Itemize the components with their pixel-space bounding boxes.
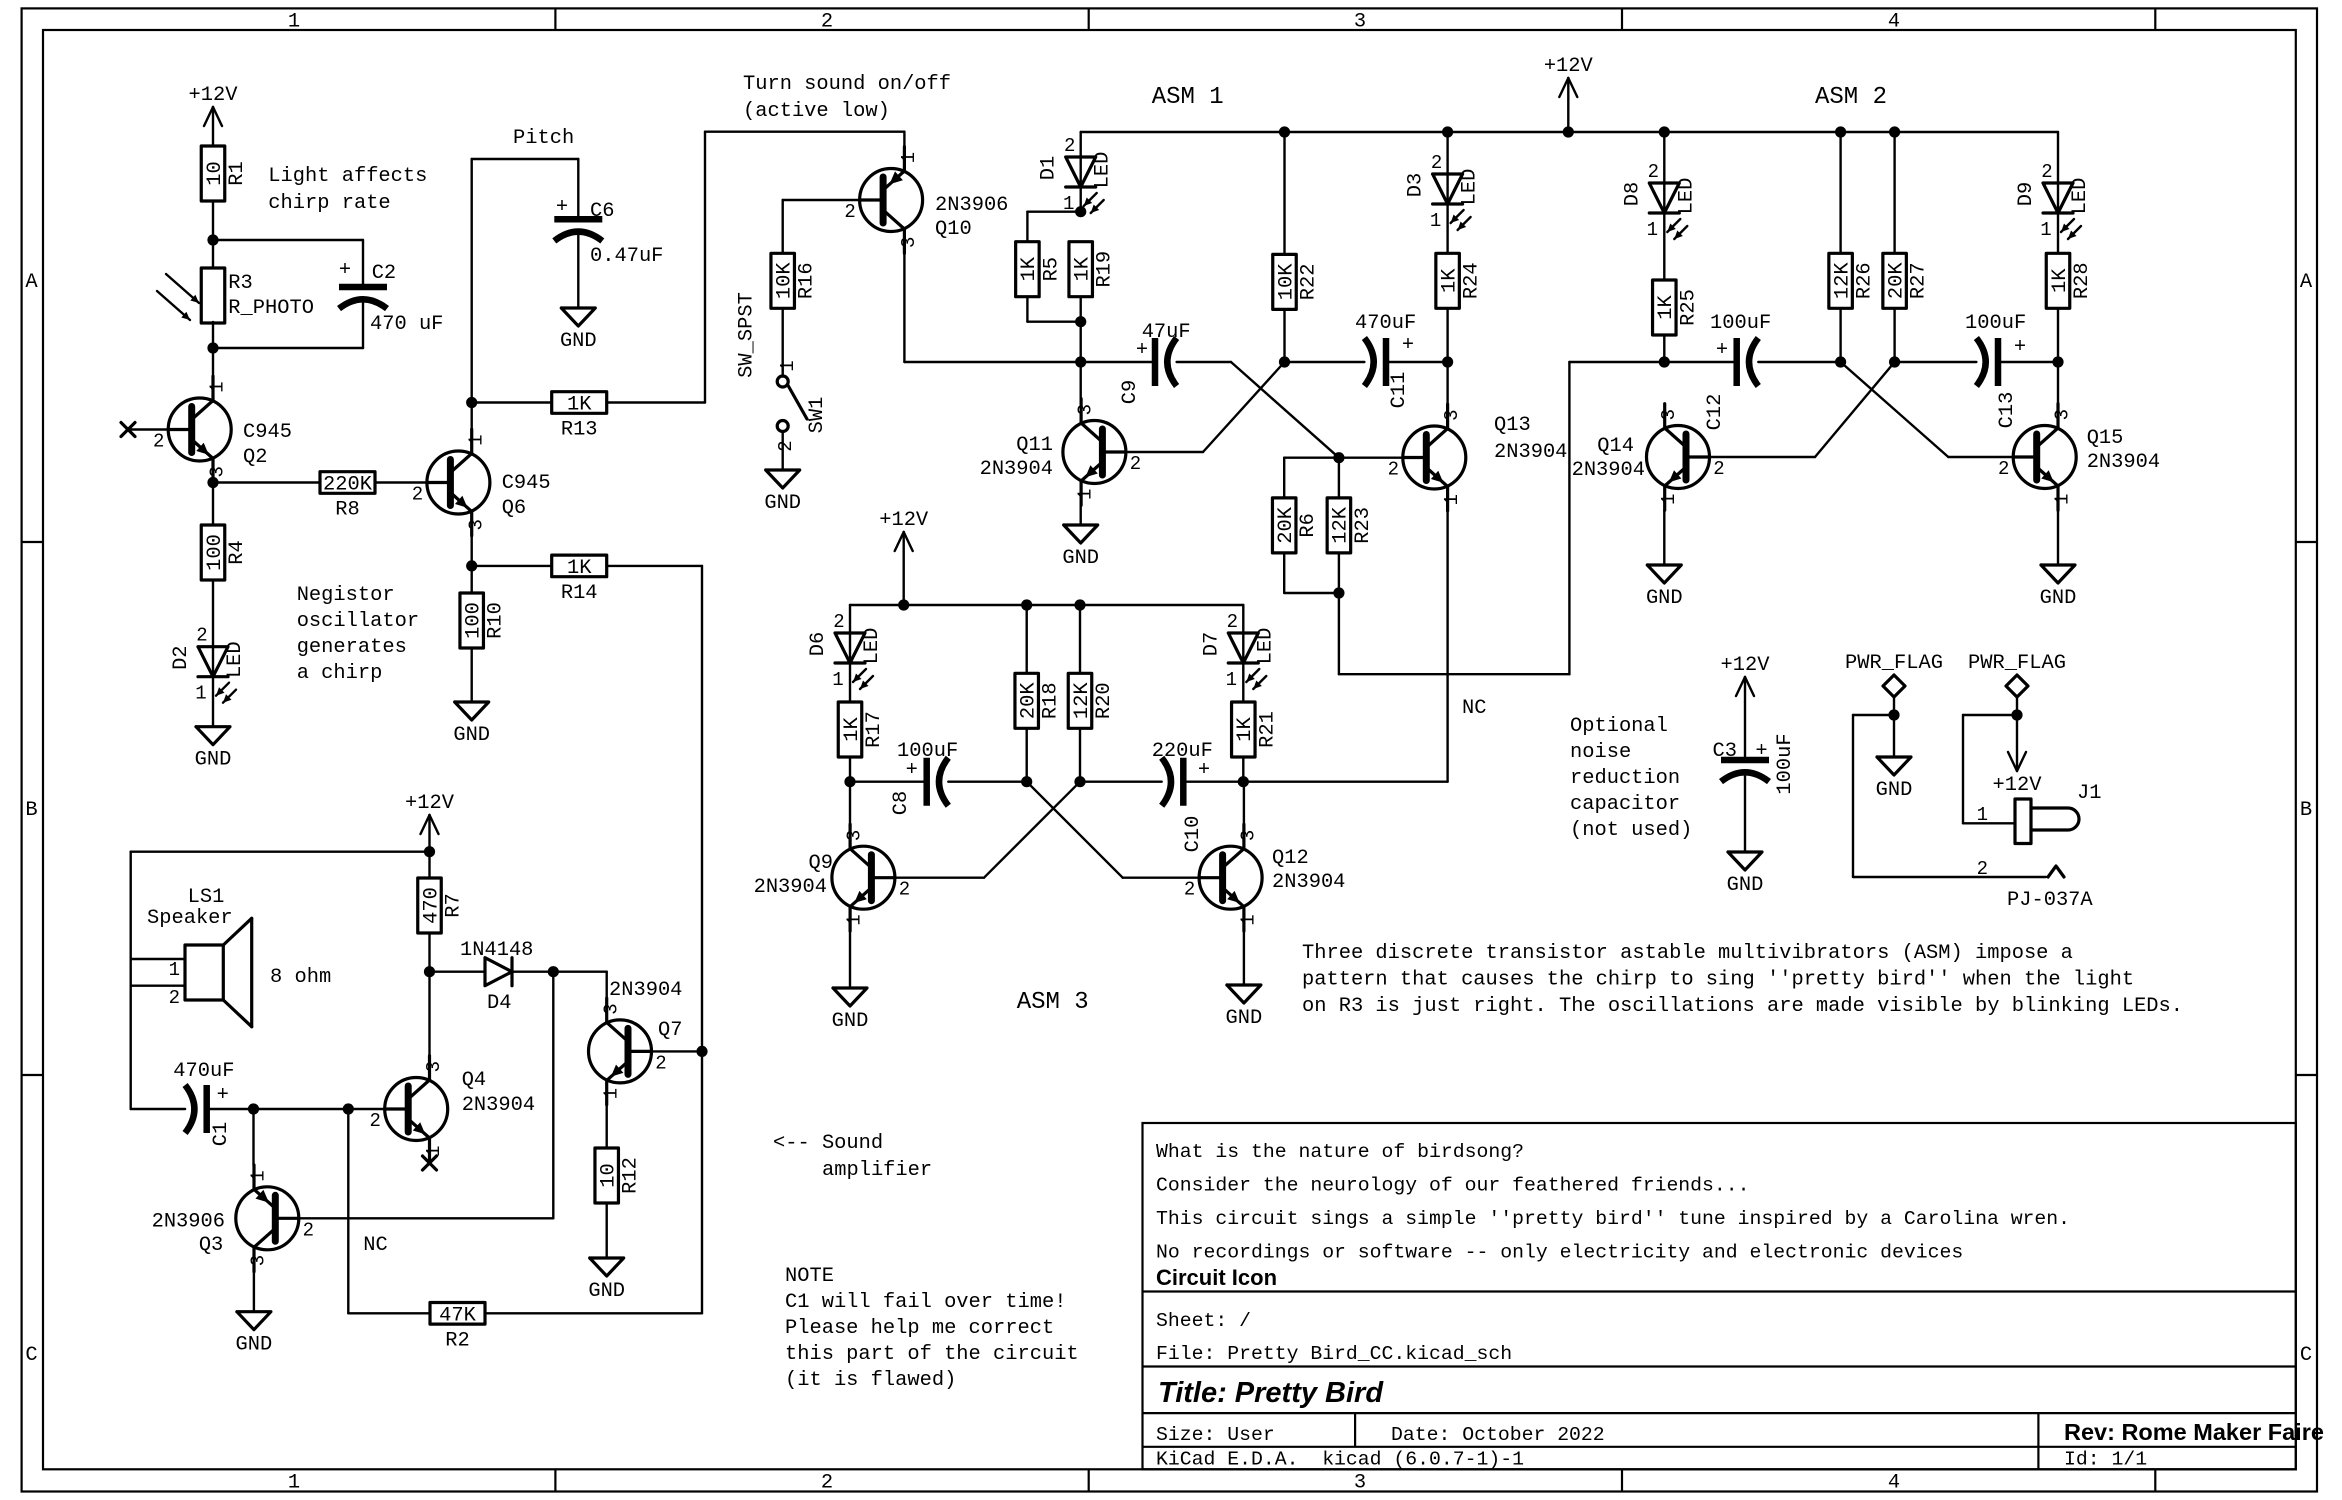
svg-text:1: 1	[1430, 210, 1441, 232]
svg-text:this part of the circuit: this part of the circuit	[785, 1343, 1079, 1366]
svg-text:NC: NC	[363, 1234, 387, 1257]
junction Q7 base / R14 / R2	[696, 1046, 707, 1057]
svg-text:R21: R21	[1256, 711, 1279, 748]
wire rail corner to D9	[2057, 132, 2059, 182]
svg-text:10K: 10K	[774, 262, 797, 299]
resistor R6	[1272, 498, 1296, 553]
svg-text:R13: R13	[561, 419, 598, 442]
svg-text:on R3 is just right. The oscil: on R3 is just right. The oscillations ar…	[1302, 995, 2183, 1018]
wire C3 to GND	[1744, 776, 1746, 852]
svg-text:GND: GND	[832, 1010, 869, 1033]
svg-text:2: 2	[153, 431, 164, 453]
svg-text:NOTE: NOTE	[785, 1265, 834, 1288]
wire Q7 base to junction	[652, 1050, 703, 1052]
svg-text:+: +	[1198, 759, 1210, 782]
title block	[1143, 1123, 2296, 1469]
wire R10 to GND	[471, 648, 473, 702]
junction R25 / C12 / Q14 collector	[1659, 356, 1670, 367]
svg-text:2: 2	[821, 11, 833, 34]
junction +12V R7	[424, 846, 435, 857]
svg-text:C945: C945	[502, 472, 551, 495]
svg-text:R16: R16	[796, 262, 819, 299]
wire R18 to junction	[1025, 728, 1027, 781]
wire Q15 collector	[2057, 362, 2059, 404]
junction C13 right / R28 / Q15	[2052, 356, 2063, 367]
svg-text:LED: LED	[224, 641, 247, 678]
svg-text:GND: GND	[764, 492, 801, 515]
svg-text:GND: GND	[195, 749, 232, 772]
wire Q15 emitter to GND	[2057, 510, 2059, 565]
svg-text:C10: C10	[1182, 816, 1205, 853]
svg-text:C13: C13	[1996, 392, 2019, 429]
wire Q6 emitter	[471, 536, 473, 593]
capacitor C13	[1995, 338, 2002, 386]
svg-text:LS1: LS1	[188, 886, 225, 909]
svg-text:No recordings or software -- o: No recordings or software -- only electr…	[1156, 1242, 1963, 1264]
junction R22 bottom / C11 left	[1279, 356, 1290, 367]
junction R27 bottom / C13 left	[1889, 356, 1900, 367]
wire rail to D1	[1079, 132, 1081, 156]
svg-text:100: 100	[463, 602, 486, 639]
wire R12 to GND	[606, 1203, 608, 1258]
wire R27 to junction	[1893, 308, 1895, 362]
transistor Q13	[1403, 426, 1466, 489]
junction Pitch node	[466, 397, 477, 408]
svg-text:1: 1	[248, 1170, 270, 1181]
wire Q6 collector to Pitch node	[471, 403, 473, 430]
ground below PWR_FLAG1	[1877, 757, 1911, 775]
wire PWR_FLAG2 to J1 pin1	[1963, 714, 2017, 716]
ground below D2	[196, 727, 230, 745]
svg-text:C3: C3	[1713, 740, 1737, 763]
resistor R28	[2046, 253, 2070, 308]
svg-text:R1: R1	[226, 161, 249, 185]
transistor Q11	[1063, 421, 1126, 484]
power +12V amplifier	[428, 815, 430, 852]
svg-text:LED: LED	[1675, 178, 1698, 215]
junction rail D3	[1442, 126, 1453, 137]
wire rail to D7	[1242, 605, 1244, 632]
capacitor C6	[554, 216, 602, 223]
svg-text:+: +	[1136, 339, 1148, 362]
svg-text:2N3904: 2N3904	[1572, 459, 1645, 482]
wire Pitch to R13	[472, 401, 552, 403]
svg-text:+12V: +12V	[1993, 774, 2043, 797]
svg-text:Consider the neurology of our: Consider the neurology of our feathered …	[1156, 1175, 1750, 1197]
svg-text:R7: R7	[443, 893, 466, 917]
svg-text:100: 100	[204, 534, 227, 571]
svg-text:47K: 47K	[439, 1304, 476, 1327]
svg-text:2N3904: 2N3904	[2087, 451, 2160, 474]
wire PWR_FLAG1 to GND	[1893, 715, 1895, 757]
svg-text:R27: R27	[1908, 262, 1931, 299]
svg-text:2: 2	[655, 1052, 666, 1074]
svg-text:GND: GND	[1062, 547, 1099, 570]
svg-text:R12: R12	[620, 1157, 643, 1194]
junction rail +12V	[1563, 126, 1574, 137]
svg-text:2N3904: 2N3904	[1494, 441, 1567, 464]
svg-text:2N3906: 2N3906	[935, 194, 1008, 217]
junction Q2 emitter / R8	[207, 477, 218, 488]
junction R18 bottom / C8 right	[1021, 776, 1032, 787]
wire bias feed to ASM2	[1338, 593, 1340, 674]
svg-text:+12V: +12V	[1544, 55, 1594, 78]
wire R17 to junction	[849, 757, 851, 782]
svg-text:1: 1	[832, 669, 843, 691]
svg-text:GND: GND	[236, 1334, 273, 1357]
svg-text:Q2: Q2	[243, 446, 267, 469]
svg-text:1: 1	[207, 381, 229, 392]
wire rail to D6	[849, 605, 851, 632]
svg-text:3: 3	[844, 830, 866, 841]
svg-text:B: B	[25, 799, 37, 822]
wire R7 to D4 node	[428, 933, 430, 972]
wire R14 left	[472, 565, 552, 567]
svg-text:C1 will fail over time!: C1 will fail over time!	[785, 1291, 1066, 1314]
svg-text:1K: 1K	[567, 394, 592, 417]
svg-text:C945: C945	[243, 421, 292, 444]
wire to R8	[213, 481, 320, 483]
svg-text:noise: noise	[1570, 741, 1631, 764]
wire diagonal to Q15 base	[1841, 362, 1949, 457]
speaker LS1	[185, 945, 223, 1000]
svg-text:1K: 1K	[1655, 295, 1678, 320]
junction Q4 base node	[343, 1103, 354, 1114]
wire Q3 base	[299, 1217, 554, 1219]
power +12V ASM1	[1567, 78, 1569, 132]
svg-text:capacitor: capacitor	[1570, 793, 1680, 816]
svg-text:reduction: reduction	[1570, 767, 1680, 790]
svg-text:Q6: Q6	[502, 497, 526, 520]
junction R7 D4 Q4	[424, 966, 435, 977]
svg-text:Q14: Q14	[1597, 435, 1634, 458]
svg-text:R14: R14	[561, 582, 598, 605]
svg-text:1: 1	[2052, 494, 2074, 505]
transistor Q3	[236, 1187, 299, 1250]
wire Q3 collector riser	[252, 1109, 254, 1165]
resistor R25	[1653, 280, 1677, 335]
svg-text:Id: 1/1: Id: 1/1	[2064, 1449, 2147, 1471]
svg-text:(active low): (active low)	[743, 100, 890, 123]
junction Q11 collector / C9	[1075, 356, 1086, 367]
svg-text:Please help me correct: Please help me correct	[785, 1317, 1054, 1340]
svg-text:100uF: 100uF	[1965, 312, 2026, 335]
wire R7 top	[428, 852, 430, 878]
wire diagonal C9 to Q13 base	[1231, 362, 1339, 458]
svg-text:10K: 10K	[1275, 263, 1298, 300]
power +12V top-left	[212, 107, 214, 146]
wire rail to D3	[1446, 132, 1448, 173]
svg-text:2: 2	[1130, 453, 1141, 475]
wire +12V rail left	[131, 851, 430, 853]
wire corner down to Q7 collector	[606, 972, 608, 998]
wire R14 to Q7 base riser	[607, 565, 702, 567]
svg-text:oscillator: oscillator	[297, 610, 419, 633]
resistor R12	[595, 1148, 619, 1203]
resistor R4	[201, 525, 225, 580]
ground below R10	[455, 702, 489, 720]
rail ASM3	[850, 604, 1243, 606]
svg-text:R19: R19	[1094, 251, 1117, 288]
wire R1 to R3	[212, 201, 214, 268]
junction D1 bottom	[1075, 206, 1086, 217]
junction rail R22	[1279, 126, 1290, 137]
svg-text:LED: LED	[1254, 628, 1277, 665]
wire C13 to R28 node	[1998, 361, 2058, 363]
capacitor C12	[1733, 338, 1740, 386]
junction C11 right / R24 / Q13	[1442, 356, 1453, 367]
resistor R1	[201, 146, 225, 201]
svg-text:1: 1	[169, 959, 180, 981]
capacitor C1	[203, 1085, 210, 1133]
wire R20 to junction	[1079, 728, 1081, 781]
svg-text:R26: R26	[1854, 262, 1877, 299]
junction C1 / Q3	[248, 1103, 259, 1114]
junction Q6 emitter / R14	[466, 560, 477, 571]
svg-text:1K: 1K	[2049, 268, 2072, 293]
svg-text:+: +	[906, 759, 918, 782]
ground below R12	[590, 1258, 624, 1276]
svg-text:Speaker: Speaker	[147, 907, 233, 930]
wire Q10 emitter down to C9 row	[903, 253, 905, 362]
junction PWR_FLAG2	[2011, 709, 2022, 720]
svg-text:2N3904: 2N3904	[980, 458, 1053, 481]
svg-text:20K: 20K	[1885, 262, 1908, 299]
svg-text:3: 3	[423, 1061, 445, 1072]
resistor R10	[460, 593, 484, 648]
svg-text:3: 3	[465, 519, 487, 530]
wire D1 to R5 R19	[1079, 187, 1081, 212]
svg-text:4: 4	[1888, 11, 1900, 34]
svg-text:ASM 2: ASM 2	[1815, 84, 1887, 111]
wire Q11 emitter to GND	[1079, 505, 1081, 525]
power +12V down at J1	[2016, 715, 2018, 771]
junction R1-R3-C2 top	[207, 234, 218, 245]
svg-text:2: 2	[369, 1110, 380, 1132]
svg-text:2: 2	[1648, 161, 1659, 183]
svg-text:2: 2	[1977, 858, 1988, 880]
svg-text:470: 470	[420, 887, 443, 924]
svg-text:C: C	[2300, 1344, 2312, 1367]
svg-text:R28: R28	[2071, 262, 2094, 299]
svg-text:D1: D1	[1038, 156, 1061, 180]
wire speaker pin1	[131, 958, 185, 960]
svg-text:J1: J1	[2077, 782, 2101, 805]
svg-text:R24: R24	[1461, 262, 1484, 299]
wire rail to R27	[1893, 132, 1895, 253]
wire base node to R23	[1338, 458, 1340, 498]
junction ASM3 R20	[1074, 599, 1085, 610]
svg-text:3: 3	[2052, 409, 2074, 420]
wire riser to Q3 base	[552, 972, 554, 1219]
svg-text:(it is flawed): (it is flawed)	[785, 1369, 956, 1392]
svg-text:2: 2	[833, 611, 844, 633]
LED D3	[1433, 174, 1463, 204]
ground below Q11	[1064, 525, 1098, 543]
svg-text:Turn sound on/off: Turn sound on/off	[743, 73, 951, 96]
ground below C6	[561, 308, 595, 326]
svg-text:1N4148: 1N4148	[460, 939, 533, 962]
svg-text:D3: D3	[1405, 173, 1428, 197]
svg-text:ASM 3: ASM 3	[1017, 989, 1089, 1016]
wire D8 to R25	[1663, 213, 1665, 280]
junction R5-R19	[1075, 316, 1086, 327]
wire left riser	[129, 852, 131, 1109]
svg-text:1: 1	[288, 11, 300, 34]
svg-text:2: 2	[844, 201, 855, 223]
resistor R23	[1327, 498, 1351, 553]
resistor R14	[552, 555, 607, 577]
svg-text:R5: R5	[1040, 257, 1063, 281]
LED D6	[835, 633, 865, 663]
svg-text:generates: generates	[297, 636, 407, 659]
svg-text:+: +	[1716, 339, 1728, 362]
svg-text:Sheet: /: Sheet: /	[1156, 1310, 1251, 1332]
svg-text:R18: R18	[1040, 682, 1063, 719]
svg-text:3: 3	[1354, 1472, 1366, 1495]
ground below C3	[1728, 852, 1762, 870]
svg-text:D9: D9	[2015, 182, 2038, 206]
resistor R8	[320, 472, 375, 494]
svg-text:1: 1	[777, 360, 799, 371]
svg-text:R8: R8	[335, 499, 359, 522]
svg-text:12K: 12K	[1330, 506, 1353, 543]
junction C10 right / R21 / Q12	[1238, 776, 1249, 787]
svg-text:GND: GND	[1876, 779, 1913, 802]
svg-text:GND: GND	[1646, 587, 1683, 610]
svg-text:pattern that causes the chirp: pattern that causes the chirp to sing ''…	[1302, 969, 2134, 992]
wire Q13 emitter to ASM3 D7 node	[1446, 511, 1448, 782]
svg-text:470 uF: 470 uF	[370, 313, 443, 336]
transistor Q15	[2013, 426, 2076, 489]
svg-text:GND: GND	[2040, 587, 2077, 610]
svg-text:Three discrete transistor asta: Three discrete transistor astable multiv…	[1302, 942, 2073, 965]
transistor Q4	[385, 1078, 448, 1141]
power +12V C3	[1744, 677, 1746, 760]
svg-text:KiCad E.D.A. kicad (6.0.7-1)-: KiCad E.D.A. kicad (6.0.7-1)-1	[1156, 1449, 1524, 1471]
svg-text:2: 2	[303, 1219, 314, 1241]
wire rail to R22	[1283, 132, 1285, 254]
resistor R22	[1273, 254, 1297, 309]
power +12V ASM3	[903, 532, 905, 605]
junction R3-C2 bottom	[207, 342, 218, 353]
wire D4 to Q7 collector corner	[512, 971, 607, 973]
svg-text:C2: C2	[372, 262, 396, 285]
svg-text:1: 1	[1074, 489, 1096, 500]
svg-text:R20: R20	[1093, 682, 1116, 719]
ground below Q15	[2041, 565, 2075, 583]
svg-text:1: 1	[1658, 494, 1680, 505]
wire Q10 base to R16	[783, 199, 860, 201]
svg-text:+: +	[217, 1084, 229, 1107]
LED D1	[1066, 157, 1096, 187]
resistor R16	[771, 253, 795, 308]
svg-text:Q13: Q13	[1494, 414, 1531, 437]
svg-text:1K: 1K	[1438, 268, 1461, 293]
connector J1 PJ-037A	[2015, 799, 2031, 844]
svg-text:A: A	[25, 271, 38, 294]
resistor R7	[418, 878, 442, 933]
wire R4 to D2	[212, 580, 214, 647]
wire Q12 emitter to GND	[1243, 931, 1245, 985]
svg-text:+: +	[2014, 336, 2026, 359]
capacitor C2	[339, 284, 387, 291]
svg-text:2N3904: 2N3904	[1272, 871, 1345, 894]
resistor R26	[1829, 253, 1853, 308]
wire R26 to junction	[1839, 308, 1841, 362]
wire R22 to junction	[1283, 309, 1285, 362]
junction rail D8	[1659, 126, 1670, 137]
wire R28 to junction	[2057, 308, 2059, 362]
wire C8 to R18 junction	[948, 781, 1026, 783]
svg-text:2: 2	[1388, 459, 1399, 481]
svg-text:2: 2	[1713, 458, 1724, 480]
wire Q12 collector	[1243, 782, 1245, 825]
svg-text:1: 1	[1226, 669, 1237, 691]
resistor R2	[430, 1303, 485, 1325]
wire rail to D8	[1663, 132, 1665, 182]
svg-text:R10: R10	[485, 602, 508, 639]
svg-text:3: 3	[1354, 11, 1366, 34]
wire Q4 collector	[428, 972, 430, 1056]
switch SW1 SW_SPST	[777, 376, 788, 387]
svg-text:R6: R6	[1297, 513, 1320, 537]
junction ASM3 +12V	[898, 599, 909, 610]
svg-text:Q9: Q9	[809, 852, 833, 875]
junction R26 bottom / C12 right	[1835, 356, 1846, 367]
wire C12 to R26 junction	[1758, 361, 1840, 363]
resistor R21	[1232, 702, 1256, 757]
transistor Q9	[832, 846, 895, 909]
svg-text:10: 10	[204, 161, 227, 185]
svg-text:10: 10	[598, 1163, 621, 1187]
resistor R13	[552, 392, 607, 414]
wire D3 to R24	[1446, 204, 1448, 253]
resistor R5	[1016, 242, 1040, 297]
svg-text:0.47uF: 0.47uF	[590, 245, 663, 268]
svg-text:Light affects: Light affects	[268, 165, 427, 188]
svg-text:+12V: +12V	[405, 792, 455, 815]
wire rail to R26	[1839, 132, 1841, 253]
svg-text:1K: 1K	[1072, 256, 1095, 281]
junction PWR_FLAG1	[1888, 709, 1899, 720]
wire C2 top branch	[213, 239, 363, 241]
ground below Q14	[1647, 565, 1681, 583]
svg-text:This circuit sings a simple '': This circuit sings a simple ''pretty bir…	[1156, 1208, 2070, 1230]
svg-text:R_PHOTO: R_PHOTO	[228, 297, 314, 320]
svg-text:PWR_FLAG: PWR_FLAG	[1968, 652, 2066, 675]
svg-text:Optional: Optional	[1570, 715, 1668, 738]
svg-text:2: 2	[1431, 152, 1442, 174]
junction ASM3 R18	[1021, 599, 1032, 610]
svg-text:Title: Pretty Bird: Title: Pretty Bird	[1158, 1377, 1384, 1409]
svg-text:1K: 1K	[841, 717, 864, 742]
svg-text:12K: 12K	[1831, 262, 1854, 299]
wire Q9 collector	[849, 782, 851, 825]
svg-text:2: 2	[412, 484, 423, 506]
svg-text:R2: R2	[445, 1329, 469, 1352]
svg-text:2: 2	[1064, 135, 1075, 157]
ground below Q3	[237, 1312, 271, 1330]
wire C6 to GND	[577, 235, 579, 308]
svg-text:+: +	[556, 196, 568, 219]
svg-text:+: +	[1755, 740, 1767, 763]
svg-text:47uF: 47uF	[1142, 321, 1191, 344]
svg-text:20K: 20K	[1018, 682, 1041, 719]
wire to Q13 base	[1339, 457, 1403, 459]
capacitor C10	[1180, 758, 1187, 806]
wire R5 R19 bottoms	[1026, 297, 1028, 322]
